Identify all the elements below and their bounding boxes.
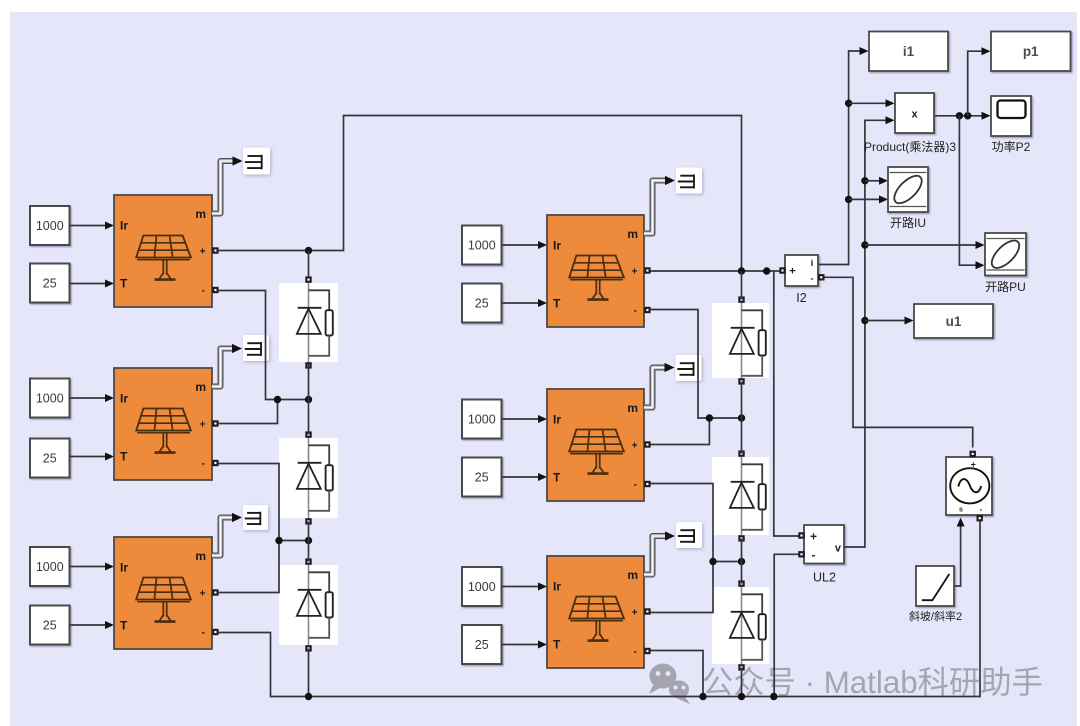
wire + node to D1M top bbox=[741, 271, 743, 300]
junction bottom rail PV3M- bbox=[699, 693, 706, 700]
terminator tag T2L bbox=[243, 335, 269, 361]
constant block Constant M3b value 25 bbox=[462, 625, 502, 664]
wire v to u1 bbox=[865, 320, 905, 322]
wire Constant L1b to PV1L T bbox=[70, 283, 113, 285]
svg-text:m: m bbox=[195, 207, 206, 221]
I2 - port bbox=[818, 274, 824, 280]
constant block Constant L2b value 25 bbox=[30, 439, 70, 478]
PV2M + port bbox=[644, 441, 650, 447]
terminator tag T1L bbox=[243, 148, 270, 175]
wire Constant M3a to PV3M Ir bbox=[502, 586, 546, 588]
svg-text:-: - bbox=[634, 306, 637, 317]
wire + node down to UL2 + bbox=[774, 271, 799, 536]
junction bottom rail D3L bbox=[305, 693, 312, 700]
svg-text:i1: i1 bbox=[903, 44, 915, 59]
svg-text:T: T bbox=[120, 619, 128, 633]
junction v to IU bbox=[861, 177, 868, 184]
measurement bus PV2M m bbox=[644, 363, 675, 408]
wire PV2L+ up to node row1L bbox=[218, 400, 278, 424]
constant block Constant L3a value 1000 bbox=[30, 547, 70, 586]
watermark: WeChat 公众号 Matlab科研助手 bbox=[649, 664, 690, 705]
terminator tag T1M bbox=[676, 168, 702, 194]
junction PV1L+ / D1L bbox=[305, 247, 312, 254]
svg-text:Ir: Ir bbox=[120, 219, 128, 233]
svg-text:1000: 1000 bbox=[468, 412, 496, 426]
svg-text:m: m bbox=[627, 227, 638, 241]
goto block i1 bbox=[869, 32, 948, 72]
svg-text:+: + bbox=[200, 247, 206, 258]
wire ramp to source s input bbox=[954, 526, 961, 586]
XY graph block 开路PU bbox=[985, 233, 1026, 276]
constant block Constant L1a value 1000 bbox=[30, 206, 70, 245]
junction i to XY IU bbox=[845, 196, 852, 203]
junction row1M diode string bbox=[738, 414, 745, 421]
PV3L - port bbox=[212, 629, 218, 635]
wire product out up to p1 bbox=[968, 51, 983, 116]
D2L top port bbox=[305, 431, 311, 437]
svg-text:-: - bbox=[634, 647, 637, 658]
junction v to u1 bbox=[861, 317, 868, 324]
junction row1L diode string bbox=[305, 396, 312, 403]
wire Constant L2b to PV2L T bbox=[70, 456, 113, 458]
D1M bottom port bbox=[738, 378, 744, 384]
constant block Constant L2a value 1000 bbox=[30, 379, 70, 418]
wire middle + node to I2 + bbox=[651, 270, 780, 272]
antiparallel diode block D3L bbox=[279, 565, 338, 645]
PV array block PV1L bbox=[114, 195, 212, 307]
svg-text:-: - bbox=[812, 548, 816, 562]
wire Constant M1b to PV1M T bbox=[502, 302, 546, 304]
svg-text:1000: 1000 bbox=[468, 580, 496, 594]
antiparallel diode block D3M bbox=[712, 587, 769, 664]
wire product out down to PU in2 bbox=[959, 116, 976, 265]
PV array block PV1M bbox=[547, 215, 644, 327]
PV array block PV3M bbox=[547, 556, 644, 668]
wire UL2 v up to Product in2 bbox=[845, 120, 887, 547]
svg-text:25: 25 bbox=[43, 276, 57, 290]
measurement bus PV3M m bbox=[644, 531, 675, 574]
junction product out to PU bbox=[956, 112, 963, 119]
wire PV1L- down to node row1L bbox=[218, 291, 309, 400]
svg-text:-: - bbox=[980, 505, 983, 514]
wire PV2M+ up to node row1M bbox=[651, 418, 710, 445]
measurement bus PV3L m bbox=[212, 513, 242, 556]
wire Constant L2a to PV2L Ir bbox=[70, 397, 113, 399]
PV1L - port bbox=[212, 287, 218, 293]
constant block Constant M2a value 1000 bbox=[462, 400, 502, 439]
wire PV3M- to bottom rail bbox=[651, 651, 704, 697]
svg-text:+: + bbox=[810, 530, 817, 544]
PV2M - port bbox=[644, 481, 650, 487]
wire Constant L1a to PV1L Ir bbox=[70, 225, 113, 227]
junction middle + node bbox=[738, 267, 745, 274]
junction row2M left bbox=[709, 558, 716, 565]
svg-text:Ir: Ir bbox=[120, 561, 128, 575]
wire PV1M- to node row1M bbox=[651, 310, 742, 419]
svg-text:m: m bbox=[627, 568, 638, 582]
D2M bottom port bbox=[738, 535, 744, 541]
antiparallel diode block D2M bbox=[712, 457, 769, 535]
ramp block 斜坡/斜率2 bbox=[916, 566, 954, 606]
svg-text:T: T bbox=[553, 471, 561, 485]
svg-text:1000: 1000 bbox=[36, 560, 64, 574]
voltage source - port bbox=[977, 515, 983, 521]
constant block Constant M1b value 25 bbox=[462, 284, 502, 323]
D3L bottom port bbox=[305, 645, 311, 651]
PV3M - port bbox=[644, 648, 650, 654]
svg-text:-: - bbox=[810, 274, 813, 285]
wire i to IU in2 bbox=[849, 198, 880, 200]
svg-text:-: - bbox=[634, 480, 637, 491]
svg-text:+: + bbox=[632, 608, 638, 619]
D2M top port bbox=[738, 450, 744, 456]
svg-text:Ir: Ir bbox=[553, 239, 561, 253]
wire I2 i measurement up to i1 bbox=[818, 51, 860, 265]
svg-text:开路IU: 开路IU bbox=[890, 215, 926, 230]
junction row2M diode string bbox=[738, 558, 745, 565]
junction middle + UL2 branch bbox=[763, 267, 770, 274]
XY graph block 开路IU bbox=[888, 167, 928, 212]
scope block 功率P2 bbox=[991, 96, 1031, 136]
svg-text:25: 25 bbox=[475, 470, 489, 484]
PV array block PV2M bbox=[547, 389, 644, 501]
svg-text:-: - bbox=[202, 459, 205, 470]
measurement bus PV2L m bbox=[212, 344, 242, 387]
wire Constant M1a to PV1M Ir bbox=[502, 244, 546, 246]
junction row1L PV2L+ bbox=[274, 396, 281, 403]
constant block Constant M1a value 1000 bbox=[462, 226, 502, 265]
PV1L + port bbox=[212, 247, 218, 253]
junction bottom rail UL2- bbox=[770, 693, 777, 700]
svg-text:I2: I2 bbox=[796, 291, 806, 305]
svg-text:公众号 · Matlab科研助手: 公众号 · Matlab科研助手 bbox=[702, 665, 1043, 700]
wire D3M bottom to bottom rail bbox=[741, 668, 743, 697]
PV2L - port bbox=[212, 460, 218, 466]
D1L top port bbox=[305, 276, 311, 282]
I2 + port bbox=[779, 267, 785, 273]
junction row1M PV2M+ bbox=[706, 414, 713, 421]
constant block Constant L3b value 25 bbox=[30, 606, 70, 645]
wire node to D1L top bbox=[308, 251, 310, 277]
svg-text:25: 25 bbox=[475, 296, 489, 310]
antiparallel diode block D2L bbox=[279, 438, 338, 518]
svg-text:1000: 1000 bbox=[36, 219, 64, 233]
svg-text:T: T bbox=[120, 277, 128, 291]
PV array block PV2L bbox=[114, 368, 212, 480]
svg-text:u1: u1 bbox=[946, 314, 962, 329]
measurement bus PV1L m bbox=[212, 156, 243, 213]
PV1M + port bbox=[644, 267, 650, 273]
D1L bottom port bbox=[305, 362, 311, 368]
voltage measurement block UL2 bbox=[804, 525, 844, 564]
PV3L + port bbox=[212, 589, 218, 595]
svg-text:+: + bbox=[789, 266, 795, 278]
D3L top port bbox=[305, 558, 311, 564]
svg-text:T: T bbox=[553, 297, 561, 311]
D3M top port bbox=[738, 580, 744, 586]
current measurement block I2 bbox=[785, 255, 818, 286]
junction product out to p1 bbox=[964, 112, 971, 119]
svg-text:i: i bbox=[811, 258, 814, 269]
svg-text:+: + bbox=[632, 441, 638, 452]
svg-text:T: T bbox=[120, 450, 128, 464]
terminator tag T3M bbox=[676, 522, 702, 548]
junction bottom rail D3M bbox=[738, 693, 745, 700]
PV3M + port bbox=[644, 608, 650, 614]
junction v to PU bbox=[861, 241, 868, 248]
terminator tag T2M bbox=[676, 355, 702, 381]
wire Constant L3a to PV3L Ir bbox=[70, 566, 113, 568]
wire Constant M3b to PV3M T bbox=[502, 644, 546, 646]
wire node row2M bbox=[713, 561, 742, 563]
svg-text:Ir: Ir bbox=[120, 392, 128, 406]
svg-text:1000: 1000 bbox=[468, 238, 496, 252]
product block Product(乘法器)3 bbox=[895, 93, 934, 133]
PV2L + port bbox=[212, 420, 218, 426]
UL2 + port bbox=[798, 532, 804, 538]
wire i to Product in1 bbox=[849, 102, 886, 104]
wire Constant M2a to PV2M Ir bbox=[502, 418, 546, 420]
svg-text:+: + bbox=[200, 420, 206, 431]
wire I2 - to voltage source + port bbox=[824, 277, 972, 447]
wire PV2M- / PV3M+ shared vertical bbox=[651, 484, 714, 613]
constant block Constant L1b value 25 bbox=[30, 264, 70, 303]
wire D1M bottom to D2M top bbox=[741, 382, 743, 454]
controlled voltage source bbox=[946, 457, 992, 515]
wire D2L bottom to D3L top bbox=[308, 522, 310, 562]
terminator tag T3L bbox=[243, 505, 268, 530]
wire node row2L bbox=[279, 540, 309, 542]
svg-text:p1: p1 bbox=[1023, 44, 1039, 59]
svg-text:UL2: UL2 bbox=[813, 571, 836, 585]
svg-text:+: + bbox=[632, 267, 638, 278]
junction row2L diode string bbox=[305, 537, 312, 544]
svg-text:-: - bbox=[202, 628, 205, 639]
goto block p1 bbox=[991, 32, 1071, 72]
svg-text:1000: 1000 bbox=[36, 391, 64, 405]
UL2 - port bbox=[798, 551, 804, 557]
voltage source + port bbox=[970, 451, 976, 457]
measurement bus PV1M m bbox=[644, 176, 675, 234]
svg-text:s: s bbox=[959, 507, 963, 514]
PV1M - port bbox=[644, 307, 650, 313]
svg-text:开路PU: 开路PU bbox=[985, 279, 1026, 294]
wire v to PU in1 bbox=[865, 244, 977, 246]
svg-text:Product(乘法器)3: Product(乘法器)3 bbox=[864, 140, 956, 154]
wire Constant L3b to PV3L T bbox=[70, 624, 113, 626]
svg-text:25: 25 bbox=[43, 451, 57, 465]
svg-text:Ir: Ir bbox=[553, 580, 561, 594]
wire PV2L- / PV3L+ shared vertical bbox=[218, 464, 279, 593]
svg-text:25: 25 bbox=[475, 638, 489, 652]
junction row2L left bbox=[275, 537, 282, 544]
wire Product out to scope P2 bbox=[934, 115, 983, 117]
wire D3L bottom to bottom rail bbox=[308, 649, 310, 697]
D3M bottom port bbox=[738, 664, 744, 670]
svg-text:25: 25 bbox=[43, 618, 57, 632]
antiparallel diode block D1M bbox=[712, 303, 769, 378]
constant block Constant M3a value 1000 bbox=[462, 567, 502, 606]
constant block Constant M2b value 25 bbox=[462, 458, 502, 497]
svg-text:Ir: Ir bbox=[553, 413, 561, 427]
svg-text:斜坡/斜率2: 斜坡/斜率2 bbox=[909, 609, 962, 623]
svg-text:v: v bbox=[835, 543, 842, 555]
D1M top port bbox=[738, 296, 744, 302]
svg-text:x: x bbox=[911, 109, 918, 121]
svg-text:+: + bbox=[200, 589, 206, 600]
svg-text:+: + bbox=[971, 460, 976, 470]
D2L bottom port bbox=[305, 518, 311, 524]
wire Constant M2b to PV2M T bbox=[502, 476, 546, 478]
antiparallel diode block D1L bbox=[279, 283, 338, 362]
wire D2M bottom to D3M top bbox=[741, 539, 743, 584]
svg-text:m: m bbox=[195, 380, 206, 394]
svg-text:m: m bbox=[195, 549, 206, 563]
wire UL2 - down to bottom rail bbox=[774, 554, 798, 696]
junction i to product bbox=[845, 100, 852, 107]
wire PV3L- along bottom rail up to source - bbox=[218, 522, 980, 697]
goto block u1 bbox=[914, 304, 993, 338]
svg-text:功率P2: 功率P2 bbox=[992, 139, 1031, 154]
svg-text:m: m bbox=[627, 401, 638, 415]
PV array block PV3L bbox=[114, 537, 212, 649]
wire PV1L+ to top rail to middle + node bbox=[218, 116, 742, 272]
svg-text:-: - bbox=[202, 286, 205, 297]
wire D1L bottom to D2L top bbox=[308, 364, 310, 435]
svg-text:T: T bbox=[553, 638, 561, 652]
wire v to IU in1 bbox=[865, 180, 880, 182]
